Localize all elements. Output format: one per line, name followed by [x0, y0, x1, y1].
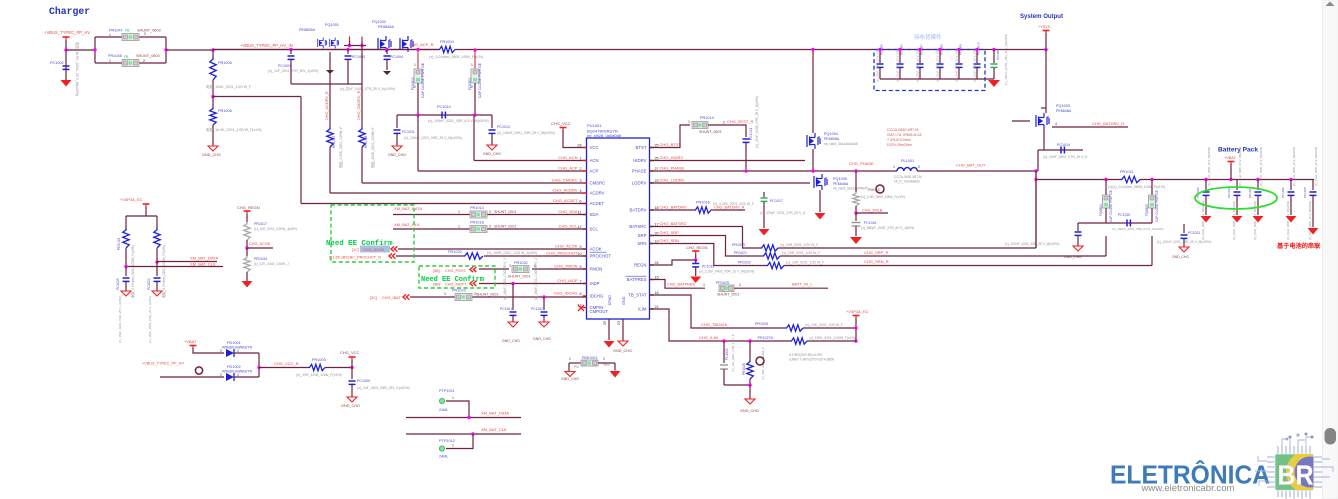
value PR1015: [130, 245, 135, 298]
svg-text:IDCHG: IDCHG: [590, 294, 605, 299]
svg-text:1: 1: [452, 396, 454, 400]
svg-text:SHUNT_0603: SHUNT_0603: [137, 29, 161, 33]
svg-text:PR1018: PR1018: [470, 221, 484, 225]
pin SDA of PU1001: [558, 209, 598, 217]
net CHG_SRP_R: [864, 250, 889, 255]
svg-text:CHG_IADP: CHG_IADP: [557, 278, 578, 283]
wire tbdata to pullup: [803, 327, 856, 329]
wire LODRV to gate: [650, 182, 811, 184]
pin ILIM of PU1001: [638, 305, 658, 312]
label Battery Pack: [1218, 147, 1258, 154]
svg-text:1: 1: [471, 63, 473, 67]
wire VBUS vertical: [65, 40, 67, 80]
svg-text:PC1010: PC1010: [437, 105, 451, 109]
svg-text:(±)_10uF_0805_25 V_M(x20%): (±)_10uF_0805_25 V_M(x20%): [1259, 147, 1263, 186]
svg-text:CHG_BTST_R: CHG_BTST_R: [727, 119, 754, 124]
wire SRN long: [784, 236, 1152, 266]
svg-text:CHG_IBAT: CHG_IBAT: [382, 296, 401, 300]
svg-text:PC1003: PC1003: [352, 55, 365, 59]
svg-text:PR1020: PR1020: [448, 250, 462, 254]
value PC1003: [340, 86, 395, 91]
svg-text:CHG_CMSRC_R: CHG_CMSRC_R: [357, 90, 361, 120]
svg-text:ISAT=7A, IRMS=6.2A: ISAT=7A, IRMS=6.2A: [887, 133, 922, 137]
pin PHASE of PU1001: [632, 166, 685, 174]
svg-text:PHASE: PHASE: [632, 169, 647, 174]
svg-text:nb_l2_7a0a6a8a3: nb_l2_7a0a6a8a3: [894, 180, 920, 184]
svg-text:2: 2: [579, 167, 581, 171]
node rail jct 418: [416, 113, 419, 116]
net CHG_PMON row: [479, 264, 586, 269]
wire ILIM: [650, 309, 725, 341]
svg-text:24ML: 24ML: [439, 455, 449, 459]
svg-text:CHG_PHASE: CHG_PHASE: [660, 166, 685, 171]
svg-text:+VBUS_TYPEC_PP_HV: +VBUS_TYPEC_PP_HV: [142, 362, 184, 366]
svg-text:PQ1001: PQ1001: [325, 23, 339, 27]
svg-text:SCL: SCL: [590, 227, 599, 232]
node phase snub: [854, 169, 857, 172]
wire ilim across: [724, 340, 790, 342]
power +VBUS_TYPEC_PP_HV: [44, 30, 90, 40]
svg-text:XM_BAT_DATA: XM_BAT_DATA: [190, 256, 218, 261]
svg-text:SDA: SDA: [590, 212, 599, 217]
svg-text:www.eletronicabr.com: www.eletronicabr.com: [1140, 483, 1234, 494]
wire kelvin rail: [1106, 208, 1152, 223]
node VBUS junction: [64, 48, 67, 51]
pin BTST of PU1001: [636, 142, 682, 150]
svg-text:PD1001: PD1001: [227, 341, 241, 345]
overline PROCHOT: [590, 251, 607, 253]
value PC1019: [699, 270, 754, 274]
svg-text:PQ1005: PQ1005: [833, 177, 847, 181]
wire CHG_CMSRC_R vertical: [361, 46, 363, 128]
svg-text:PC1021: PC1021: [1188, 231, 1200, 235]
ground GND_CHG PC1102: [533, 322, 551, 341]
capacitor PC1017: [759, 192, 807, 236]
svg-text:(±)_拉nF_0402_X7R_25 V_K(x10%): (±)_拉nF_0402_X7R_25 V_K(x10%): [340, 86, 395, 91]
wire top bus through fets: [213, 37, 438, 50]
value PR1006: [206, 127, 262, 132]
resistor PR1015: [117, 228, 129, 250]
wire BATSRC long: [778, 171, 1036, 248]
scrollbar thumb: [1325, 428, 1337, 445]
svg-text:28: 28: [577, 144, 581, 148]
annotation box system caps: [874, 50, 985, 91]
pin REGN of PU1001: [634, 261, 659, 268]
svg-text:(±)_12K_0402_1/16W_J: (±)_12K_0402_1/16W_J: [254, 262, 289, 266]
pin SCL of PU1001: [559, 224, 599, 232]
svg-text:GND_CHG: GND_CHG: [561, 377, 579, 381]
svg-text:PR1007: PR1007: [332, 136, 336, 148]
net CHG_BTST_R: [723, 119, 754, 125]
wire vsys down: [1044, 33, 1047, 51]
net CHG_SNLB: [854, 206, 888, 215]
label +VBUS_TYPEC_PP_HV_IN: [240, 43, 293, 48]
svg-text:2: 2: [918, 165, 920, 169]
svg-text:GND_CHG: GND_CHG: [740, 409, 759, 413]
svg-text:PC1023: PC1023: [116, 278, 120, 290]
svg-text:PR1011: PR1011: [1120, 170, 1133, 174]
svg-text:CHG_BAT_OUT: CHG_BAT_OUT: [956, 163, 986, 168]
svg-text:SHUNT_0201: SHUNT_0201: [508, 275, 530, 279]
capacitor PC1102: [531, 258, 548, 322]
resistor PR1027A: [758, 336, 856, 344]
svg-text:1: 1: [458, 210, 460, 214]
svg-text:[3C]: [3C]: [370, 296, 377, 300]
svg-text:PR1013: PR1013: [470, 206, 484, 210]
net ACOK row: [352, 246, 586, 252]
title Charger: [49, 6, 90, 17]
svg-text:CHG_CMSRC: CHG_CMSRC: [552, 178, 578, 183]
node fet tap 1: [289, 48, 292, 51]
testpoint PTP1011: [439, 389, 455, 404]
svg-text:(±)_100nF_0201_X5R_6.3 V_K(x10: (±)_100nF_0201_X5R_6.3 V_K(x10%): [1112, 227, 1164, 231]
svg-text:(±)_47nF_0402_X7R_25 V_K(x5%): (±)_47nF_0402_X7R_25 V_K(x5%): [755, 96, 759, 148]
wire tp clk line: [406, 432, 521, 435]
svg-text:CHG_ILIM: CHG_ILIM: [699, 335, 718, 340]
svg-text:SHUNT_0201: SHUNT_0201: [717, 293, 739, 297]
value text vbus vertical: [75, 42, 80, 96]
diode PD1002: [220, 365, 253, 381]
svg-text:XM_BAT_CLK: XM_BAT_CLK: [481, 427, 507, 432]
svg-text:PC1016: PC1016: [864, 221, 876, 225]
jumper FQ1B05: [1145, 180, 1159, 223]
svg-text:PN0415: PN0415: [868, 188, 880, 192]
net XM_BAT_DATA stub: [157, 256, 218, 262]
svg-text:1: 1: [703, 283, 705, 287]
resistor PR1003: [308, 358, 326, 371]
svg-text:CHG_ACP: CHG_ACP: [558, 166, 578, 171]
svg-text:SRP: SRP: [638, 233, 647, 238]
pin ACDET of PU1001: [553, 198, 605, 206]
svg-text:7.3*6.8*3.0mm: 7.3*6.8*3.0mm: [887, 138, 911, 142]
svg-text:CHG_HIDRV: CHG_HIDRV: [660, 155, 684, 160]
svg-text:23: 23: [617, 321, 621, 325]
wire branch out: [166, 49, 213, 51]
svg-text:PR1008: PR1008: [364, 136, 368, 148]
pin IDCHG of PU1001: [553, 291, 604, 299]
wire to gnd: [246, 272, 248, 281]
svg-text:Charger: Charger: [49, 6, 90, 17]
wire PQ1003 gate stub: [1012, 120, 1030, 122]
pin VCC of PU1001: [577, 144, 598, 151]
svg-text:FB: FB: [124, 55, 129, 59]
svg-text:BATSRC: BATSRC: [629, 224, 646, 229]
svg-text:PR1022: PR1022: [738, 261, 751, 265]
svg-text:(±)_18pF_0201_C0G_25 V_J(x5%): (±)_18pF_0201_C0G_25 V_J(x5%): [118, 296, 122, 343]
ground cap bank: [988, 80, 1000, 87]
ground pbh left: [561, 363, 579, 381]
svg-text:XM_BAT_CLK: XM_BAT_CLK: [190, 262, 216, 267]
capacitor PC1011: [394, 115, 415, 146]
wire VCC: [563, 130, 586, 148]
svg-text:1: 1: [109, 33, 111, 37]
svg-text:PC1017: PC1017: [770, 199, 783, 203]
net CHG_BAT_OUT: [956, 163, 986, 168]
net CHG_PSYS in box: [433, 267, 476, 273]
svg-text:REGN: REGN: [634, 263, 646, 268]
svg-text:(±)_2.2uF_0402_X5R_10 V_M(x20%: (±)_2.2uF_0402_X5R_10 V_M(x20%): [699, 270, 754, 274]
pin CMSRC of PU1001: [552, 178, 606, 186]
resistor PR1020: [448, 250, 483, 259]
svg-text:GND_CHG: GND_CHG: [202, 153, 221, 157]
value inductor: [894, 175, 922, 184]
svg-text:ACP: ACP: [590, 169, 599, 174]
svg-text:PR1021: PR1021: [734, 251, 747, 255]
wire ilim to pullup: [807, 340, 856, 342]
svg-text:2: 2: [220, 373, 222, 377]
wire IADP row: [479, 283, 586, 285]
node IDCHG cap tap: [542, 295, 545, 298]
jumper FQ1B02: [411, 50, 425, 99]
net CHG_TBDATA: [701, 322, 728, 327]
value PC1014: [1043, 155, 1088, 159]
svg-text:1: 1: [458, 225, 460, 229]
svg-text:PC1019: PC1019: [702, 265, 714, 269]
svg-text:1: 1: [452, 444, 454, 448]
svg-text:System Output: System Output: [1020, 13, 1064, 20]
power +VSYS: [1038, 25, 1051, 34]
scrollbar track: [1323, 0, 1338, 499]
svg-text:ILIM: ILIM: [638, 307, 647, 312]
svg-text:[F1.66.1B6] BC_PROCHOT_N: [F1.66.1B6] BC_PROCHOT_N: [329, 256, 381, 260]
wire BATDRV row: [650, 209, 695, 211]
diode PD1001: [220, 341, 253, 357]
label 24ML 1: [439, 408, 449, 412]
svg-text:PE6848A: PE6848A: [378, 25, 395, 29]
ground GND_CHG PC1012: [483, 145, 501, 156]
power +VBAT diode: [184, 339, 197, 349]
svg-text:ACDRV: ACDRV: [590, 191, 605, 196]
svg-text:(±)_680pF_0402_X7R_50 V_J(x5%): (±)_680pF_0402_X7R_50 V_J(x5%): [861, 226, 914, 230]
marker CMPIN X: [578, 305, 584, 311]
wire q3 to bus: [1035, 171, 1037, 248]
svg-text:PR1026: PR1026: [755, 322, 768, 326]
ground CHG_REGN chain: [242, 281, 253, 288]
svg-text:1: 1: [109, 59, 111, 63]
svg-text:(±)_10uF_0805_25 V_M(x20%): (±)_10uF_0805_25 V_M(x20%): [1238, 147, 1242, 186]
wire cap bank rail: [878, 48, 995, 79]
label CHG_ACDRV_R: [325, 91, 329, 120]
svg-text:(±)_10R_0201_1/20 W_F: (±)_10R_0201_1/20 W_F: [786, 261, 824, 265]
jumper FQ1B04: [1099, 180, 1113, 223]
svg-text:电阻_4.7Kohm_0201_1/20W_F(x1%): 电阻_4.7Kohm_0201_1/20W_F(x1%): [130, 245, 135, 298]
svg-text:Need EE Confirm: Need EE Confirm: [421, 276, 484, 284]
svg-text:待布背摸件: 待布背摸件: [914, 33, 942, 41]
resistor PR1006: [210, 97, 232, 147]
svg-text:2: 2: [489, 225, 491, 229]
value PC1000: [357, 386, 410, 390]
node divider junction: [211, 95, 214, 98]
svg-text:SHUNT_0603: SHUNT_0603: [699, 130, 721, 134]
svg-text:CHG_BATDRV: CHG_BATDRV: [660, 205, 687, 210]
svg-text:PR1028: PR1028: [742, 363, 746, 375]
ground GND vbus cap: [61, 80, 72, 87]
svg-text:PC1004: PC1004: [390, 55, 403, 59]
svg-text:(±)_10uF_0805_25 V_M(x20%): (±)_10uF_0805_25 V_M(x20%): [1314, 147, 1318, 186]
node rail jct 475: [473, 113, 476, 116]
capacitor PC1820: [1005, 223, 1082, 246]
node bus taps: [1104, 178, 1292, 181]
svg-text:BATDRV: BATDRV: [629, 208, 646, 213]
annotation chinese caps: [914, 33, 942, 41]
ground GND_CHG PC1101: [502, 322, 520, 343]
svg-text:BR: BR: [1278, 460, 1314, 491]
svg-text:CAP CLOSE PWR GE: CAP CLOSE PWR GE: [421, 62, 425, 98]
svg-text:PQ1002: PQ1002: [372, 20, 386, 24]
inductor PL1001: [897, 168, 917, 171]
wire SDA row: [393, 210, 586, 215]
node xm data: [155, 260, 158, 263]
svg-text:PL1001: PL1001: [901, 159, 914, 163]
svg-text:(±)_100nF_0201_X5R_25 V_M(x20%: (±)_100nF_0201_X5R_25 V_M(x20%): [497, 131, 555, 135]
wire FQ1B02 to rail: [417, 83, 419, 115]
svg-text:PC1011: PC1011: [402, 130, 415, 134]
node fet tap 2: [346, 48, 419, 51]
svg-text:PR1015: PR1015: [117, 238, 121, 250]
svg-text:PR1032: PR1032: [514, 261, 528, 265]
svg-text:PR1006: PR1006: [218, 109, 232, 113]
svg-text:+VBUS_TYPEC_PP_HV_IN: +VBUS_TYPEC_PP_HV_IN: [240, 43, 293, 48]
node ilim taps: [722, 339, 751, 342]
svg-text:GND_CHG: GND_CHG: [533, 337, 551, 341]
inductor PL1001 label: [893, 159, 920, 169]
logo chip: [1255, 433, 1333, 499]
svg-text:电阻_4.7Kohm_0201_1/20W_F(x1%): 电阻_4.7Kohm_0201_1/20W_F(x1%): [161, 245, 166, 298]
svg-text:(±)_150K_0201_1/20W_F(x1%): (±)_150K_0201_1/20W_F(x1%): [809, 336, 856, 340]
value PR1003: [296, 373, 342, 377]
annotation green ellipse: [1195, 187, 1277, 209]
svg-text:(±)_22uF_0805_25 V_X5R: (±)_22uF_0805_25 V_X5R: [936, 49, 940, 82]
svg-text:FQ1B04: FQ1B04: [1099, 204, 1103, 216]
svg-text:SHUNT_0201: SHUNT_0201: [476, 293, 498, 297]
annotation text Need EE Confirm 1: [326, 240, 393, 248]
power CHG_REGN ic: [686, 246, 708, 262]
resistor PR1004: [438, 40, 455, 53]
node ACP junction: [473, 48, 476, 51]
resistor PR1007: [327, 127, 343, 168]
svg-text:+V3P3A_EC: +V3P3A_EC: [120, 197, 143, 202]
svg-text:(±)_100nF_0201_X5R_25 V_M(x20%: (±)_100nF_0201_X5R_25 V_M(x20%): [404, 136, 462, 140]
logo url: [1140, 483, 1234, 494]
svg-text:PTP1011: PTP1011: [439, 389, 455, 393]
svg-text:PC1013: PC1013: [749, 128, 753, 140]
svg-text:GND_CHG: GND_CHG: [483, 152, 501, 156]
svg-text:PU1001: PU1001: [587, 123, 602, 128]
capacitor battery bank: [1196, 147, 1318, 240]
pin TB_STAT of PU1001: [628, 291, 658, 298]
wire battery bus left: [1034, 178, 1120, 181]
svg-text:ILIME= 0.997/(20*0.01)=4.985A: ILIME= 0.997/(20*0.01)=4.985A: [789, 358, 835, 362]
svg-text:CHG_PROCHOT: CHG_PROCHOT: [546, 251, 578, 256]
svg-text:CHG_ACN: CHG_ACN: [558, 155, 578, 160]
svg-text:(±)_18pF_0201_C0G_25 V_J(x5%): (±)_18pF_0201_C0G_25 V_J(x5%): [148, 296, 152, 343]
net XM_BAT_DATA tp: [481, 411, 509, 416]
svg-text:PMON: PMON: [590, 267, 603, 272]
svg-text:PQ1004: PQ1004: [824, 132, 838, 136]
wire acn rail: [397, 114, 492, 116]
svg-text:PC1016: PC1016: [1227, 187, 1231, 198]
svg-text:CHG_SRP_R: CHG_SRP_R: [864, 250, 889, 255]
power +V3P3A_EC left: [120, 197, 150, 207]
ground fet cap A: [326, 70, 334, 74]
value PC1016: [861, 226, 914, 230]
svg-text:BATT_IN_L: BATT_IN_L: [792, 282, 813, 287]
svg-text:PC1009: PC1009: [996, 49, 1000, 60]
svg-text:[1C]: [1C]: [352, 248, 359, 252]
svg-text:BTST: BTST: [636, 145, 647, 150]
svg-text:SHUNT_0201: SHUNT_0201: [494, 210, 516, 214]
pin HIDRV of PU1001: [633, 155, 683, 163]
wire SCL row: [393, 225, 586, 230]
wire PHASE main: [650, 170, 898, 172]
svg-text:Need EE Confirm: Need EE Confirm: [326, 240, 393, 248]
svg-text:+VBAT: +VBAT: [1224, 156, 1237, 160]
annotation box Need EE Confirm 2: [419, 266, 495, 288]
wire SRN row: [650, 244, 767, 266]
pin IADP of PU1001: [557, 278, 600, 286]
svg-text:CMSRC: CMSRC: [590, 181, 606, 186]
svg-text:PR1047: PR1047: [109, 29, 123, 33]
svg-text:+VBUS_TYPEC_PP_HV: +VBUS_TYPEC_PP_HV: [44, 30, 90, 35]
scrollbar up arrow: [1326, 2, 1335, 7]
svg-text:XM_BAT_DATA: XM_BAT_DATA: [394, 206, 422, 211]
net BC_PROCHOT_N row: [329, 253, 586, 259]
node bat out: [1034, 169, 1037, 172]
svg-text:3.1*5E/(250+5E)=0.997: 3.1*5E/(250+5E)=0.997: [789, 353, 823, 357]
svg-text:4: 4: [579, 189, 581, 193]
pin ACN of PU1001: [558, 155, 599, 163]
ground GND_CHG PR1006: [202, 146, 221, 157]
svg-text:nb_zjb28_0a0a0d8: nb_zjb28_0a0a0d8: [587, 133, 622, 138]
power CHG_REGN: [237, 205, 260, 214]
net CHG_VCC_R: [259, 361, 308, 368]
capacitor PC1023: [116, 267, 130, 292]
svg-text:(±)(±)_0.01ohm_0805_1/2W_F(x1%: (±)(±)_0.01ohm_0805_1/2W_F(x1%): [1108, 185, 1165, 189]
resistor PR1016A: [154, 228, 166, 298]
jumper PR1032: [508, 261, 530, 279]
svg-text:+V3P3A_EC: +V3P3A_EC: [846, 309, 869, 314]
jumper PR1023: [452, 289, 498, 301]
resistor PR1047 labels: [109, 29, 161, 38]
spec text inductor: [887, 128, 922, 147]
pin BATDRV of PU1001: [629, 205, 686, 213]
svg-text:(±)_100nF_0201_X5R_6.3 V_M(x20: (±)_100nF_0201_X5R_6.3 V_M(x20%): [428, 119, 489, 123]
wire branch left vertical: [93, 37, 96, 63]
svg-text:4: 4: [1055, 122, 1057, 126]
svg-text:GND_CHG: GND_CHG: [388, 153, 406, 157]
capacitor PC1009: [991, 34, 1009, 85]
svg-text:(±)_18pF_0201_C0G_50 V_J: (±)_18pF_0201_C0G_50 V_J: [503, 258, 507, 300]
svg-text:24ML: 24ML: [439, 408, 449, 412]
svg-text:CHG_ACOK: CHG_ACOK: [555, 244, 578, 249]
svg-text:29: 29: [603, 321, 607, 325]
logo BR text: [1278, 460, 1314, 491]
svg-text:(±)_22uF_0805_25 V_X5R: (±)_22uF_0805_25 V_X5R: [973, 49, 977, 82]
capacitor PC1029: [720, 334, 735, 385]
svg-text:PR1005: PR1005: [218, 61, 232, 65]
power +VBAT battery: [1224, 156, 1237, 165]
node IADP cap tap: [511, 282, 514, 285]
svg-text:2: 2: [603, 357, 605, 361]
component PBH1001: [569, 356, 610, 369]
svg-text:CHG_ACDRV_R: CHG_ACDRV_R: [325, 91, 329, 120]
svg-text:1: 1: [688, 120, 690, 124]
svg-text:FQ1B05: FQ1B05: [1145, 204, 1149, 216]
svg-text:3: 3: [579, 179, 581, 183]
pin LODRV of PU1001: [632, 178, 685, 186]
net XM_BAT_CLK tp: [481, 427, 507, 432]
ground GND_CHG PC1000: [341, 397, 360, 408]
